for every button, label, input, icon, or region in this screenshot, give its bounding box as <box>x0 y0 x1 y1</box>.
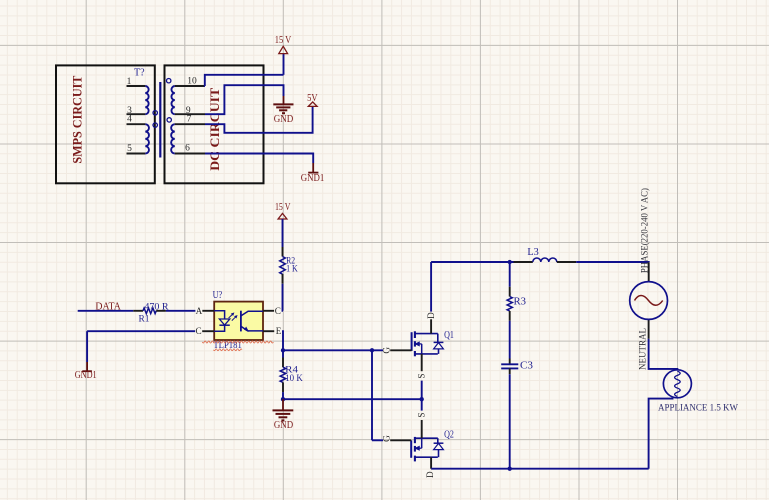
junction bottom rail C3 <box>508 467 512 471</box>
pin name D of Q2 <box>425 471 435 478</box>
wire Q1 source to Q2 <box>421 381 423 411</box>
svg-text:APPLIANCE 1.5 KW: APPLIANCE 1.5 KW <box>658 402 739 413</box>
junction top rail R3 <box>508 260 512 264</box>
transformer polarity dot right lower <box>167 118 171 122</box>
svg-text:Q1: Q1 <box>444 330 454 341</box>
wire L3 to phase <box>576 261 649 263</box>
svg-text:5: 5 <box>127 144 132 154</box>
label R3 <box>514 296 527 307</box>
junction at emitter node <box>281 348 285 352</box>
junction gate split <box>370 348 374 352</box>
wire Q2 gate lead <box>372 439 383 441</box>
squiggle underline TLP181 <box>214 349 243 351</box>
svg-text:470 R: 470 R <box>144 302 169 312</box>
label L3 <box>527 247 538 258</box>
pin 7 label <box>187 115 192 125</box>
wire R2 to opto collector <box>282 284 285 311</box>
svg-text:Q2: Q2 <box>444 430 454 441</box>
resistor R1 <box>133 308 166 314</box>
ground GND lower <box>273 399 294 431</box>
svg-text:C3: C3 <box>520 360 533 371</box>
label R4 10 K <box>285 366 303 385</box>
svg-text:A: A <box>196 306 203 316</box>
wire R3 to C3 <box>509 321 511 359</box>
wire appliance return <box>649 399 674 469</box>
wire pin6 to GND1 <box>205 154 313 164</box>
label C3 <box>520 360 533 371</box>
SMPS CIRCUIT block <box>56 65 155 183</box>
pin 5 label <box>127 144 132 154</box>
wire Q1 drain up <box>430 262 432 312</box>
pin 4 label <box>127 115 132 125</box>
label R1 <box>139 315 150 325</box>
power port GND1 top right <box>301 163 325 184</box>
svg-text:GND: GND <box>274 420 293 431</box>
junction source column <box>420 397 424 401</box>
inductor L3 <box>514 258 577 262</box>
pin name S of Q1 <box>416 373 426 378</box>
svg-text:T?: T? <box>134 68 145 79</box>
svg-text:S: S <box>416 373 426 378</box>
pin 1 label <box>127 77 132 87</box>
power port GND1 lower left <box>75 362 97 381</box>
pin 3 label <box>127 106 132 116</box>
pin 10 label <box>187 77 197 87</box>
resistor R4 <box>280 358 286 393</box>
transformer T? <box>127 82 206 158</box>
wire gate bus horizontal <box>283 349 383 351</box>
label U? <box>213 290 223 301</box>
resistor R2 <box>280 247 286 284</box>
pin name G of Q2 <box>382 435 392 442</box>
wire node to R4 <box>282 350 284 357</box>
svg-text:U?: U? <box>213 290 223 301</box>
pin name C right <box>274 306 281 316</box>
wire R4 node to source column <box>283 398 422 400</box>
label Q1 <box>444 330 454 341</box>
pin name C left <box>195 326 202 336</box>
pin name E right <box>275 326 282 336</box>
svg-text:E: E <box>276 326 282 336</box>
svg-text:R1: R1 <box>139 315 150 325</box>
wire pin7 to 5V <box>205 106 313 132</box>
pin name A <box>196 306 203 316</box>
svg-text:GND1: GND1 <box>301 173 325 184</box>
label Q2 <box>444 430 454 441</box>
AC source PHASE <box>630 282 668 320</box>
svg-text:R3: R3 <box>514 296 527 307</box>
transistor Q1 <box>390 319 443 371</box>
svg-text:C: C <box>196 326 202 336</box>
transformer polarity dot left upper <box>153 111 157 115</box>
svg-text:GND: GND <box>274 114 294 125</box>
squiggle underline box <box>202 341 273 343</box>
transformer polarity dot left lower <box>153 123 157 127</box>
capacitor C3 <box>501 359 518 375</box>
wire opto cathode to GND1 <box>87 331 195 362</box>
AC source PHASE pins <box>648 262 650 339</box>
svg-text:15 V: 15 V <box>275 202 291 213</box>
transistor Q2 <box>390 420 443 469</box>
wire R3 top <box>509 262 511 287</box>
pin 9 label <box>186 106 191 116</box>
wire pin10 to 15V <box>205 75 284 86</box>
resistor R3 <box>507 287 512 321</box>
wire DATA net <box>78 310 134 312</box>
net label NEUTRAL <box>639 328 649 370</box>
DC CIRCUIT block <box>165 65 264 183</box>
svg-text:GND1: GND1 <box>75 370 97 381</box>
svg-text:G: G <box>382 435 392 442</box>
power port 15V top <box>275 35 292 75</box>
svg-text:5V: 5V <box>307 93 318 104</box>
svg-text:D: D <box>425 471 435 478</box>
wire R1 to opto anode <box>166 310 196 312</box>
svg-text:10: 10 <box>187 77 197 87</box>
wire gate drop to Q2 <box>371 350 373 440</box>
label 470 R <box>144 302 169 312</box>
transformer designator T? <box>134 68 145 79</box>
power port 15V lower <box>275 202 291 219</box>
appliance load <box>663 370 691 398</box>
pin 6 label <box>185 144 190 154</box>
wire bottom rail <box>431 468 649 470</box>
ground GND top <box>273 96 293 125</box>
wire C3 to bottom rail <box>509 374 511 469</box>
junction R4 bottom <box>281 397 285 401</box>
pin name G of Q1 <box>382 347 392 354</box>
svg-text:G: G <box>382 347 392 354</box>
svg-text:D: D <box>426 312 436 319</box>
wire 15V to R2 <box>282 219 284 247</box>
svg-text:10 K: 10 K <box>285 374 303 384</box>
svg-text:S: S <box>416 412 426 417</box>
label TLP181 <box>213 340 241 351</box>
svg-text:7: 7 <box>187 115 192 125</box>
pin name D of Q1 <box>426 312 436 319</box>
pin name S of Q2 <box>416 412 426 417</box>
label R2 1 K <box>286 257 298 275</box>
transformer polarity dot right upper <box>167 79 171 83</box>
svg-text:NEUTRAL: NEUTRAL <box>639 328 649 370</box>
svg-text:PHASE(220-240 V AC): PHASE(220-240 V AC) <box>640 188 651 273</box>
svg-text:L3: L3 <box>527 247 538 258</box>
net label PHASE(220-240 V AC) <box>640 188 651 273</box>
svg-text:DATA: DATA <box>95 302 121 313</box>
wire pin9 to GND <box>205 85 284 114</box>
power port 5V <box>307 93 318 106</box>
svg-text:1 K: 1 K <box>286 265 298 275</box>
svg-text:15 V: 15 V <box>275 35 292 46</box>
wire opto emitter to node <box>281 331 283 350</box>
opto-coupler U1 TLP181 <box>202 302 274 340</box>
wire R4 to GND <box>282 392 284 399</box>
net label DATA <box>95 302 121 313</box>
svg-text:6: 6 <box>185 144 190 154</box>
svg-text:4: 4 <box>127 115 132 125</box>
wire top rail <box>431 261 513 263</box>
svg-text:1: 1 <box>127 77 132 87</box>
svg-text:SMPS CIRCUIT: SMPS CIRCUIT <box>70 75 85 163</box>
svg-text:C: C <box>275 306 281 316</box>
label APPLIANCE 1.5 KW <box>658 402 739 413</box>
wire phase to appliance <box>649 339 678 370</box>
svg-text:DC CIRCUIT: DC CIRCUIT <box>207 87 222 170</box>
